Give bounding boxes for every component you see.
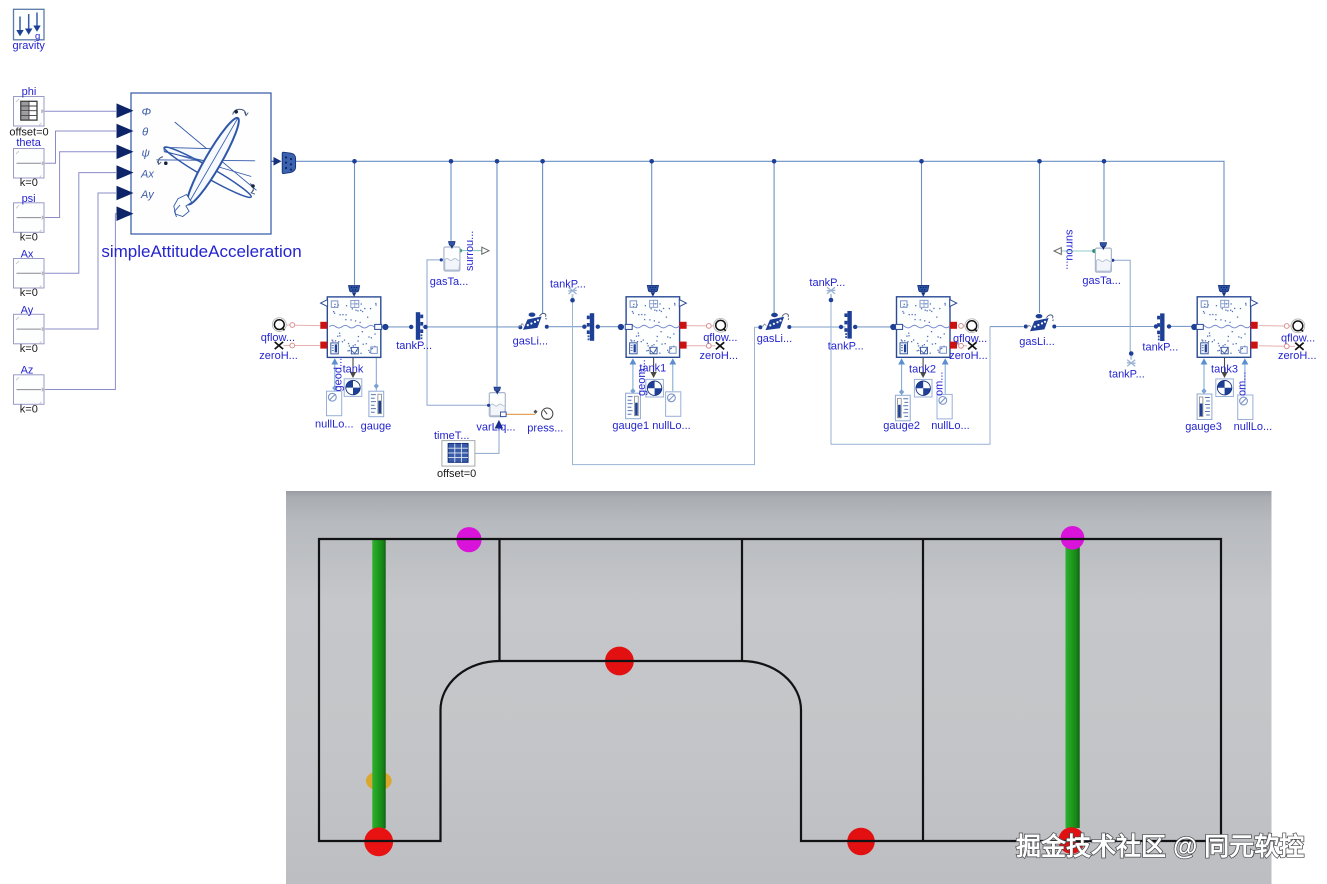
svg-text:qflow...: qflow... [1281, 332, 1315, 344]
svg-text:Ay: Ay [21, 305, 34, 317]
svg-text:phi: phi [22, 86, 37, 98]
svg-text:gauge1: gauge1 [612, 420, 649, 432]
svg-text:gauge3: gauge3 [1185, 421, 1222, 433]
svg-text:geom...: geom... [636, 359, 648, 396]
svg-text:θ: θ [142, 127, 149, 139]
svg-text:press...: press... [527, 422, 563, 434]
svg-text:tank2: tank2 [909, 364, 936, 376]
svg-text:varLiq...: varLiq... [476, 422, 515, 434]
svg-text:ψ: ψ [142, 148, 151, 160]
svg-text:nullLo...: nullLo... [931, 420, 970, 432]
svg-text:zeroH...: zeroH... [700, 350, 739, 362]
svg-text:tankP...: tankP... [1109, 369, 1145, 381]
svg-text:zeroH...: zeroH... [259, 350, 298, 362]
svg-text:gasLi...: gasLi... [757, 333, 792, 345]
svg-text:k=0: k=0 [20, 343, 38, 355]
svg-text:psi: psi [22, 193, 36, 205]
svg-text:om...: om... [1236, 372, 1248, 396]
svg-text:qflow...: qflow... [261, 332, 295, 344]
svg-text:gauge: gauge [361, 420, 392, 432]
svg-text:zeroH...: zeroH... [949, 350, 988, 362]
svg-text:gravity: gravity [12, 40, 45, 52]
svg-text:qflow...: qflow... [953, 333, 987, 345]
svg-text:om...: om... [934, 372, 946, 396]
svg-text:Ax: Ax [140, 168, 154, 180]
svg-text:tank: tank [343, 364, 364, 376]
svg-text:Φ: Φ [142, 106, 152, 118]
svg-text:gasTa...: gasTa... [1082, 275, 1121, 287]
svg-text:surrou...: surrou... [1064, 230, 1076, 270]
svg-text:掘金技术社区 @ 同元软控: 掘金技术社区 @ 同元软控 [1016, 832, 1304, 861]
svg-text:nullLo...: nullLo... [1234, 421, 1273, 433]
svg-text:offset=0: offset=0 [437, 468, 476, 480]
svg-text:k=0: k=0 [20, 231, 38, 243]
svg-text:gasTa...: gasTa... [430, 276, 469, 288]
svg-text:gasLi...: gasLi... [513, 335, 548, 347]
svg-text:Ax: Ax [21, 249, 34, 261]
svg-text:surrou...: surrou... [464, 231, 476, 271]
svg-text:nullLo...: nullLo... [315, 419, 354, 431]
svg-text:zeroH...: zeroH... [1278, 350, 1317, 362]
svg-text:Ay: Ay [140, 189, 155, 201]
svg-text:gasLi...: gasLi... [1019, 336, 1054, 348]
svg-text:theta: theta [16, 137, 41, 149]
svg-text:qflow...: qflow... [703, 332, 737, 344]
svg-text:tankP...: tankP... [809, 277, 845, 289]
svg-text:tankP...: tankP... [1142, 341, 1178, 353]
svg-text:nullLo...: nullLo... [652, 420, 691, 432]
svg-text:k=0: k=0 [20, 177, 38, 189]
svg-text:k=0: k=0 [20, 287, 38, 299]
svg-text:tankP...: tankP... [828, 340, 864, 352]
svg-text:tankP...: tankP... [396, 340, 432, 352]
svg-text:geod...: geod... [333, 358, 345, 392]
svg-text:simpleAttitudeAcceleration: simpleAttitudeAcceleration [101, 242, 301, 261]
svg-text:tankP...: tankP... [550, 279, 586, 291]
svg-text:Az: Az [21, 365, 34, 377]
svg-text:k=0: k=0 [20, 404, 38, 416]
svg-text:gauge2: gauge2 [883, 420, 920, 432]
svg-text:timeT...: timeT... [434, 430, 469, 442]
svg-text:tank3: tank3 [1211, 364, 1238, 376]
